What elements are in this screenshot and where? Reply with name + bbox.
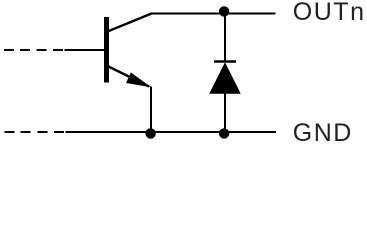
svg-text:GND: GND bbox=[293, 119, 353, 147]
wire: collector to OUTn bbox=[151, 13, 276, 15]
transistor Q1 (NPN) bbox=[104, 14, 152, 88]
junction: diode / OUTn wire bbox=[219, 6, 229, 16]
svg-text:OUTn: OUTn bbox=[293, 0, 366, 26]
wire: dashed GND lead (left) bbox=[5, 131, 65, 133]
diode D1 (clamp, cathode to OUTn) bbox=[209, 14, 241, 133]
wire: base bbox=[65, 49, 107, 51]
junction: emitter / GND rail bbox=[145, 128, 155, 138]
junction: diode / GND rail bbox=[219, 128, 229, 138]
wire: GND rail bbox=[66, 131, 277, 133]
wire: dashed base lead (left) bbox=[4, 49, 63, 51]
wire: emitter down to GND rail bbox=[150, 87, 152, 133]
